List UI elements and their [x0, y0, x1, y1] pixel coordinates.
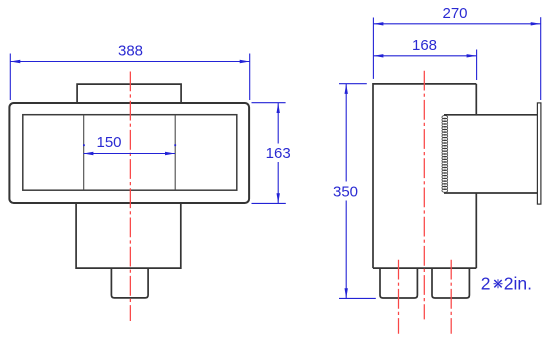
side inlet pipe top — [444, 114, 537, 116]
svg-text:270: 270 — [442, 5, 467, 22]
svg-text:168: 168 — [412, 37, 437, 54]
svg-text:163: 163 — [266, 145, 291, 162]
faceplate inner opening — [23, 115, 237, 191]
note star symbol — [494, 280, 501, 287]
centerline left stub — [398, 260, 400, 334]
right bottom pipe stub — [432, 268, 469, 298]
bottom outlet stub — [111, 268, 148, 298]
side body outline — [373, 84, 476, 268]
skimmer faceplate outline — [9, 103, 249, 203]
centerline front view — [129, 72, 131, 322]
pipe end flange plate — [537, 103, 541, 204]
centerline right stub — [450, 260, 452, 334]
svg-text:388: 388 — [118, 43, 143, 60]
dimension 388 — [10, 54, 249, 101]
svg-text:2: 2 — [481, 274, 491, 294]
centerline side body — [423, 71, 425, 320]
dimension 150 — [83, 153, 175, 155]
top lid protrusion — [77, 84, 181, 103]
pipe thread coil — [442, 115, 448, 192]
dimension 350 — [339, 84, 376, 299]
side inlet pipe bottom — [444, 192, 537, 194]
svg-text:150: 150 — [96, 134, 121, 151]
opening divider right — [174, 115, 176, 191]
dimension 168 — [373, 50, 476, 81]
dimension 270 — [373, 17, 540, 100]
opening divider left — [83, 115, 85, 191]
dimension 163 — [252, 103, 286, 204]
svg-text:350: 350 — [333, 184, 358, 201]
svg-text:2in.: 2in. — [504, 274, 532, 294]
lower throat body — [76, 203, 181, 268]
left bottom pipe stub — [380, 268, 417, 298]
